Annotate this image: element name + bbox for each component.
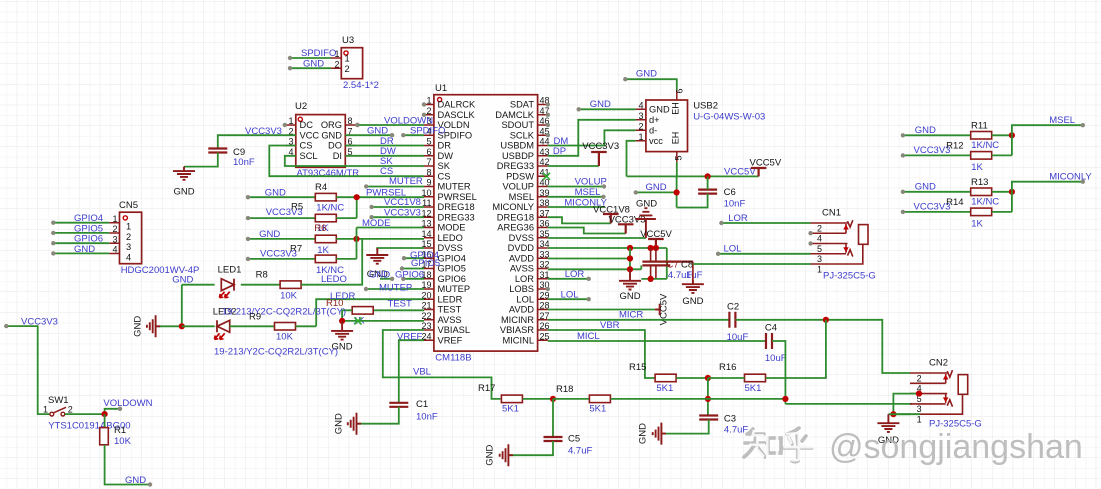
wire junction vertical R13-R14 — [1011, 192, 1013, 212]
svg-text:GPIO6: GPIO6 — [395, 270, 424, 281]
svg-text:AREG36: AREG36 — [497, 223, 534, 233]
svg-text:R14: R14 — [946, 197, 963, 208]
unconnected endpoint VCC1V8 wire — [369, 205, 373, 209]
U2 pin1 unconnected endpoint — [283, 123, 287, 127]
wire LED2 to R9 — [230, 325, 275, 327]
svg-text:VCC5V: VCC5V — [750, 158, 782, 169]
wire GND net to CN1 pin1 — [693, 263, 811, 265]
svg-text:GND: GND — [646, 182, 667, 193]
svg-text:GND: GND — [367, 126, 388, 137]
svg-text:10K: 10K — [276, 332, 294, 343]
wire USBDP U1 pin43 to USB2 d+ pin3 — [548, 120, 636, 156]
svg-text:2: 2 — [917, 373, 922, 383]
wire R10 left corner down to junction — [342, 310, 352, 321]
svg-text:GND: GND — [485, 445, 496, 466]
wire SPDIFO into U1 pin4 — [403, 134, 424, 136]
svg-text:GND: GND — [173, 187, 194, 198]
unconnected endpoint LOR pin31 — [587, 277, 591, 281]
power symbol VCC3V3 at AREG36 — [618, 224, 634, 233]
power symbol VCC5V right of USB — [751, 168, 767, 176]
wire MUTEP to U1 pin19 — [366, 288, 424, 290]
svg-text:SDAT: SDAT — [510, 100, 534, 110]
svg-text:DP: DP — [553, 146, 566, 157]
resistor R13 body — [971, 188, 992, 196]
svg-text:19-213/Y2C-CQ2R2L/3T(CY): 19-213/Y2C-CQ2R2L/3T(CY) — [222, 307, 346, 318]
svg-text:SW1: SW1 — [48, 395, 69, 406]
CN5 pin1 marker circle — [123, 216, 127, 220]
svg-text:4: 4 — [112, 245, 117, 255]
connector CN5 HDGC2001WV-4P body — [120, 212, 142, 264]
U1 right pin stubs pins 25-48 — [538, 105, 548, 341]
svg-text:1uF: 1uF — [686, 270, 703, 281]
svg-text:PDSW: PDSW — [506, 171, 534, 181]
wire mid junction down to bus and C3 — [707, 378, 709, 416]
svg-text:vcc: vcc — [649, 136, 663, 146]
svg-text:U1: U1 — [435, 83, 447, 94]
wire DREG18 pin37 to VCC1V8 tee — [548, 217, 611, 223]
svg-text:C7: C7 — [667, 260, 679, 271]
svg-text:MSEL: MSEL — [1049, 115, 1075, 126]
wire VBR pin26 to R15 — [548, 330, 655, 378]
wire C9 bottom to ground — [184, 153, 218, 167]
unconnected endpoint R6 left — [246, 237, 250, 241]
svg-text:MODE: MODE — [362, 218, 391, 229]
svg-text:R11: R11 — [971, 121, 988, 132]
svg-text:3: 3 — [817, 254, 822, 264]
svg-text:VCC3V3: VCC3V3 — [21, 316, 58, 327]
wire vertical tie pins 33 32 — [629, 248, 631, 269]
svg-text:1: 1 — [345, 54, 350, 64]
switch SW1 body — [50, 412, 54, 416]
wire stub up to VOLDOWN label endpoint — [105, 409, 120, 414]
svg-text:SK: SK — [380, 156, 393, 167]
svg-text:2: 2 — [112, 224, 117, 234]
svg-text:GPIO5: GPIO5 — [411, 258, 440, 269]
unconnected endpoint MUTER — [364, 184, 368, 188]
svg-text:21: 21 — [421, 301, 431, 311]
svg-text:R8: R8 — [256, 270, 268, 281]
wire GND to CN5 pin 4 — [53, 252, 109, 254]
svg-text:GND: GND — [125, 475, 146, 486]
unconnected endpoint GND U3 — [288, 66, 292, 70]
svg-text:GND: GND — [265, 188, 286, 199]
unconnected endpoint GND USB pin4 — [577, 107, 581, 111]
wire C2 right to CN2 corner — [735, 320, 910, 373]
svg-text:EH: EH — [671, 102, 681, 115]
unconnected endpoint R4 left — [246, 195, 250, 199]
svg-text:1: 1 — [426, 96, 431, 106]
wire GND to R6 left — [248, 238, 315, 240]
svg-text:GND: GND — [321, 130, 342, 140]
svg-text:R13: R13 — [971, 177, 988, 188]
svg-text:GND: GND — [636, 69, 657, 80]
svg-text:知乎: 知乎 — [748, 429, 816, 467]
svg-text:4.7uF: 4.7uF — [568, 446, 592, 457]
unconnected endpoint GPIO4 — [402, 256, 406, 260]
junction dot R13 — [1009, 189, 1015, 195]
wire U1 pin23 VBIASL to VBL rail — [383, 330, 501, 399]
ground symbol below TEST junction — [331, 321, 353, 340]
svg-text:GND: GND — [619, 291, 640, 302]
unconnected endpoint VCC3V3 pin12 wire — [369, 215, 373, 219]
USB2 bottom pin5 stub — [676, 152, 678, 162]
svg-text:VCC3V3: VCC3V3 — [384, 208, 421, 219]
svg-text:PWRSEL: PWRSEL — [438, 192, 477, 202]
wire MICINR pin27 MICR line — [548, 319, 730, 321]
capacitor C7 C8 stacked plates — [642, 262, 693, 266]
svg-text:GND: GND — [74, 244, 95, 255]
svg-text:MICR: MICR — [619, 310, 643, 321]
svg-text:LEDO: LEDO — [438, 233, 463, 243]
wire U1 pin24 VREF down to C1 — [399, 340, 424, 403]
resistor R8 body — [280, 281, 301, 289]
unconnected endpoint U2 pin7 wire — [390, 133, 394, 137]
svg-text:LOR: LOR — [565, 269, 585, 280]
U1 pin1 marker circle — [438, 98, 442, 102]
svg-text:14: 14 — [421, 229, 431, 239]
svg-text:VCC3V3: VCC3V3 — [582, 141, 619, 152]
U3 pin stubs — [331, 58, 341, 68]
svg-text:3: 3 — [917, 404, 922, 414]
svg-text:VBIASL: VBIASL — [438, 325, 471, 335]
unconnected endpoint R14 left — [901, 210, 905, 214]
svg-text:CN5: CN5 — [119, 200, 138, 211]
wire VOLUP U1 pin40 — [548, 186, 604, 188]
wire LOR to CN1 pin2 — [721, 222, 810, 224]
svg-text:1: 1 — [288, 116, 293, 126]
wire TEST row pin21 through resistor R10 — [373, 309, 424, 311]
svg-text:3: 3 — [112, 234, 117, 244]
ground symbol below DVSS pin15 — [366, 248, 388, 264]
wire C1 bottom to rotated ground — [358, 407, 399, 424]
svg-text:MICINR: MICINR — [501, 315, 534, 325]
unconnected endpoint LOR CN1 — [719, 221, 723, 225]
svg-text:LEDO: LEDO — [321, 274, 347, 285]
ground symbol below C9 — [173, 167, 195, 180]
wire USB2 vcc pin1 down to VCC5V line — [627, 141, 636, 177]
junction dot C6 VCC5V — [705, 173, 711, 179]
unconnected endpoint MSEL — [1081, 123, 1085, 127]
wire SW1 pin2 to junction — [65, 413, 105, 415]
svg-text:GPIO5: GPIO5 — [438, 264, 466, 274]
wire C3 bottom to rotated ground — [663, 420, 709, 434]
wire U2 pin6 DO to U1 DR pin5 — [345, 145, 424, 147]
svg-text:3: 3 — [638, 111, 643, 121]
svg-text:1K: 1K — [971, 218, 983, 229]
audio jack CN2 sleeve rectangle — [958, 375, 968, 395]
rotated ground symbol at C5 — [500, 444, 513, 466]
svg-text:PJ-325C5-G: PJ-325C5-G — [823, 271, 876, 282]
junction dot bus C3 — [705, 396, 711, 402]
wire GPIO4 to CN5 pin 1 — [53, 222, 109, 224]
wire junction down to R7 right — [356, 239, 358, 259]
wire LED1 to R8 — [241, 284, 280, 286]
wire AREG36 pin36 to VCC3V3 tee — [548, 228, 626, 234]
wire MODE corner down to R6 junction — [357, 227, 425, 229]
svg-text:DAMCLK: DAMCLK — [495, 110, 535, 120]
wire U2 pin4 SCL to U1 SK line — [285, 156, 424, 166]
junction dot pin33 — [627, 255, 633, 261]
capacitor C4 horizontal — [766, 333, 772, 349]
svg-text:VOLDOWN: VOLDOWN — [384, 115, 433, 126]
svg-text:CS: CS — [300, 141, 313, 151]
svg-text:19-213/Y2C-CQ2R2L/3T(CY): 19-213/Y2C-CQ2R2L/3T(CY) — [214, 347, 338, 358]
wire VCC3V3 to R7 left — [248, 258, 315, 260]
wire GPIO5 stub U1 pin17 — [402, 268, 424, 270]
wire LED2 row — [182, 325, 215, 327]
svg-text:10nF: 10nF — [416, 412, 438, 423]
svg-text:1K/NC: 1K/NC — [971, 196, 999, 207]
unconnected endpoint R11 left — [901, 133, 905, 137]
CN5 pin stubs — [109, 223, 119, 254]
svg-text:VCC3V3: VCC3V3 — [914, 202, 951, 213]
svg-text:5K1: 5K1 — [745, 383, 762, 394]
USB2 top pin6 stub — [676, 90, 678, 100]
svg-text:1: 1 — [126, 222, 131, 232]
junction dot TEST/AVSS/GND — [339, 318, 345, 324]
wire GND to R13 left — [903, 191, 971, 193]
wire C6 bottom corner left — [677, 194, 708, 208]
svg-text:3: 3 — [126, 242, 131, 252]
svg-text:4: 4 — [817, 234, 822, 244]
rotated ground symbol at C3 — [653, 423, 666, 445]
svg-text:R1: R1 — [114, 425, 126, 436]
svg-text:LEDR: LEDR — [438, 294, 463, 304]
unconnected endpoint GPIO6 — [401, 277, 405, 281]
wire R7 right to junction vertical — [336, 258, 356, 260]
junction dot GND stub — [674, 189, 680, 195]
svg-text:MICL: MICL — [577, 331, 600, 342]
svg-text:MUTER: MUTER — [389, 176, 423, 187]
wire LEDR row U1 pin20 to LED2 corner — [316, 299, 424, 326]
junction dot SW1/R1 — [102, 411, 108, 417]
svg-text:VREF: VREF — [438, 335, 463, 345]
unconnected endpoint VOLUP — [602, 184, 606, 188]
power symbol VCC5V above DVDD line — [648, 239, 664, 248]
wire DVDD corner down right leg — [666, 248, 668, 279]
resistor R9 body — [275, 323, 296, 331]
wire LOL to CN1 pin3 — [718, 253, 810, 255]
svg-text:GND: GND — [682, 296, 703, 307]
svg-text:AVSS: AVSS — [438, 315, 462, 325]
watermark zhihu logo strokes — [744, 428, 812, 462]
junction dot C8 top — [653, 245, 659, 251]
svg-text:4: 4 — [126, 252, 131, 262]
svg-text:C5: C5 — [568, 434, 580, 445]
svg-text:22: 22 — [421, 311, 431, 321]
unconnected endpoint MSEL — [601, 195, 605, 199]
svg-text:GND: GND — [915, 125, 936, 136]
svg-text:GND: GND — [259, 229, 280, 240]
wire GND stub U1 pin18 row — [380, 278, 392, 280]
LED LED1 — [221, 279, 234, 291]
junction dot C7 top — [648, 245, 654, 251]
wire GND to R11 left — [903, 134, 971, 136]
flipped ground symbol DVSS — [636, 208, 656, 238]
unconnected endpoint SPDIFO U3 — [288, 56, 292, 60]
connector U3 2.54-1*2 body — [341, 48, 362, 79]
wire junction down to C5 — [552, 399, 554, 437]
junction dot LED2 row — [179, 323, 185, 329]
wire MSEL U1 pin39 — [548, 196, 604, 198]
junction dot DVDD/vert — [627, 245, 633, 251]
svg-text:VBIASR: VBIASR — [500, 325, 534, 335]
unconnected endpoint R13 left — [901, 190, 905, 194]
svg-text:GPIO6: GPIO6 — [438, 274, 466, 284]
wire LOL U1 pin29 — [548, 298, 589, 300]
svg-text:MICONLY: MICONLY — [492, 202, 534, 212]
junction dot R4/R5/PWRSEL — [354, 194, 360, 200]
svg-text:10nF: 10nF — [724, 199, 746, 210]
svg-text:C8: C8 — [681, 260, 693, 271]
resistor R16 body — [745, 374, 766, 382]
wire DVDD pin34 line — [548, 247, 667, 249]
svg-text:2: 2 — [638, 122, 643, 132]
wire GND net down to LED rows — [181, 285, 183, 327]
svg-text:1: 1 — [917, 415, 922, 425]
resistor R5 body — [315, 214, 336, 222]
unconnected endpoint CN1 pin5 — [808, 241, 812, 245]
svg-text:DVSS: DVSS — [509, 233, 534, 243]
svg-text:C1: C1 — [416, 399, 428, 410]
svg-text:R18: R18 — [556, 384, 573, 395]
svg-text:CS: CS — [438, 171, 451, 181]
svg-text:GND: GND — [636, 199, 657, 210]
audio jack CN2 body — [910, 370, 963, 414]
svg-text:d+: d+ — [649, 115, 660, 125]
capacitor C3 — [699, 416, 718, 420]
wire R14 right to junction vertical — [992, 211, 1012, 213]
svg-text:R7: R7 — [290, 243, 302, 254]
svg-text:DALRCK: DALRCK — [438, 100, 477, 110]
svg-text:MSEL: MSEL — [509, 192, 534, 202]
wire VCC3V3 to U1 pin12 — [372, 216, 424, 218]
svg-text:6: 6 — [426, 147, 431, 157]
wire bus branch down to CN2 row1 — [893, 404, 920, 414]
svg-text:TEST: TEST — [388, 299, 412, 310]
svg-text:GND: GND — [334, 413, 345, 434]
svg-text:VCC5V: VCC5V — [640, 229, 672, 240]
svg-text:VCC3V3: VCC3V3 — [245, 126, 282, 137]
svg-text:LOL: LOL — [724, 244, 742, 255]
svg-text:MSEL: MSEL — [575, 187, 601, 198]
svg-text:AVDD: AVDD — [509, 305, 534, 315]
svg-text:GND: GND — [915, 181, 936, 192]
wire R5 right to junction vertical — [336, 217, 356, 219]
junction dot CN2 row5 — [916, 391, 922, 397]
svg-text:MICINL: MICINL — [502, 335, 534, 345]
resistor R15 body — [655, 374, 676, 382]
svg-text:SCLK: SCLK — [510, 130, 535, 140]
svg-text:5K1: 5K1 — [589, 404, 606, 415]
wire GND to USB2 pin6 — [625, 79, 677, 90]
unconnected endpoint CN5 pin1 wire — [51, 221, 55, 225]
svg-text:AVDD: AVDD — [509, 253, 534, 263]
wire MICONLY U1 pin38 — [548, 206, 605, 208]
svg-text:R12: R12 — [946, 141, 963, 152]
wire VCC1V8 to U1 pin11 — [372, 206, 424, 208]
wire AVDD pin33 row — [548, 258, 630, 260]
svg-text:25: 25 — [540, 331, 550, 341]
svg-text:R16: R16 — [719, 362, 736, 373]
U2 pin1 marker circle — [298, 117, 302, 121]
unconnected endpoint GPIO5 — [400, 266, 404, 270]
svg-text:1: 1 — [43, 405, 48, 415]
svg-text:GND: GND — [172, 274, 193, 285]
wire vertical GND branch near USB — [676, 176, 678, 207]
capacitor C6 — [698, 190, 717, 194]
wire U2 pin3 CS to U1 CS line — [269, 146, 424, 177]
junction dot CN2 row1 — [890, 411, 896, 417]
svg-text:2: 2 — [126, 232, 131, 242]
unconnected endpoint U1 pin2 — [422, 113, 426, 117]
wire cap bottom horizontal — [641, 278, 667, 280]
ground symbol below pin32 junction — [619, 269, 641, 289]
resistor R11 body — [971, 132, 992, 140]
audio jack CN1 sleeve rectangle — [859, 225, 869, 245]
svg-text:EH: EH — [671, 132, 681, 145]
svg-text:SK: SK — [438, 161, 451, 171]
unconnected endpoint CN5 pin2 wire — [51, 231, 55, 235]
svg-text:SDOUT: SDOUT — [501, 120, 534, 130]
wire AVSS pin32 row — [548, 268, 642, 270]
wire VCC5V line down to C6 — [707, 176, 709, 189]
wire R17 right to junction — [522, 398, 553, 400]
wire junction to R16 left — [708, 377, 745, 379]
junction dot cap bottom — [648, 276, 654, 282]
svg-text:7: 7 — [426, 157, 431, 167]
junction dot MICR R16 — [823, 317, 829, 323]
svg-text:DVSS: DVSS — [438, 243, 463, 253]
svg-text:CN1: CN1 — [822, 208, 841, 219]
svg-text:CM118B: CM118B — [435, 353, 471, 364]
wire R12 right to junction vertical — [992, 154, 1012, 156]
unconnected endpoint GND pin18 row — [390, 277, 394, 281]
unconnected endpoint CN5 pin3 wire — [51, 241, 55, 245]
resistor R12 body — [971, 152, 992, 160]
wire AVDD pin28 to rotated VCC5V — [548, 309, 655, 311]
svg-text:GPIO4: GPIO4 — [438, 253, 466, 263]
svg-text:9: 9 — [426, 178, 431, 188]
wire GPIO5 to CN5 pin 2 — [53, 232, 109, 234]
svg-text:32: 32 — [540, 260, 550, 270]
svg-text:R4: R4 — [315, 182, 327, 193]
wire DVSS pin35 to flipped ground — [548, 237, 646, 239]
svg-text:LOL: LOL — [561, 289, 579, 300]
svg-text:@songjiangshan: @songjiangshan — [829, 428, 1083, 466]
svg-text:DR: DR — [438, 141, 452, 151]
wire CN2 ground stub — [888, 413, 910, 415]
resistor R4 body — [315, 193, 336, 201]
svg-text:U2: U2 — [295, 101, 307, 112]
capacitor C9 — [208, 149, 227, 153]
unconnected endpoint GND below R1 — [148, 482, 152, 486]
junction dot R15 R16 mid — [705, 375, 711, 381]
connector USB2 U-G-04WS-W-03 body — [646, 100, 688, 152]
svg-text:4.7uF: 4.7uF — [724, 425, 748, 436]
unconnected endpoint GND stub — [634, 190, 638, 194]
unconnected endpoint SPDIFO wire — [401, 133, 405, 137]
svg-text:2: 2 — [68, 405, 73, 415]
svg-text:10uF: 10uF — [765, 353, 787, 364]
capacitor C1 — [389, 403, 408, 407]
svg-text:U3: U3 — [342, 35, 354, 46]
wire C5 bottom to rotated ground — [510, 441, 554, 455]
svg-text:DREG18: DREG18 — [497, 212, 534, 222]
wire junction up to MSEL — [1012, 125, 1083, 135]
wire junction down to R5 right — [356, 197, 358, 218]
svg-text:LED1: LED1 — [218, 265, 242, 276]
